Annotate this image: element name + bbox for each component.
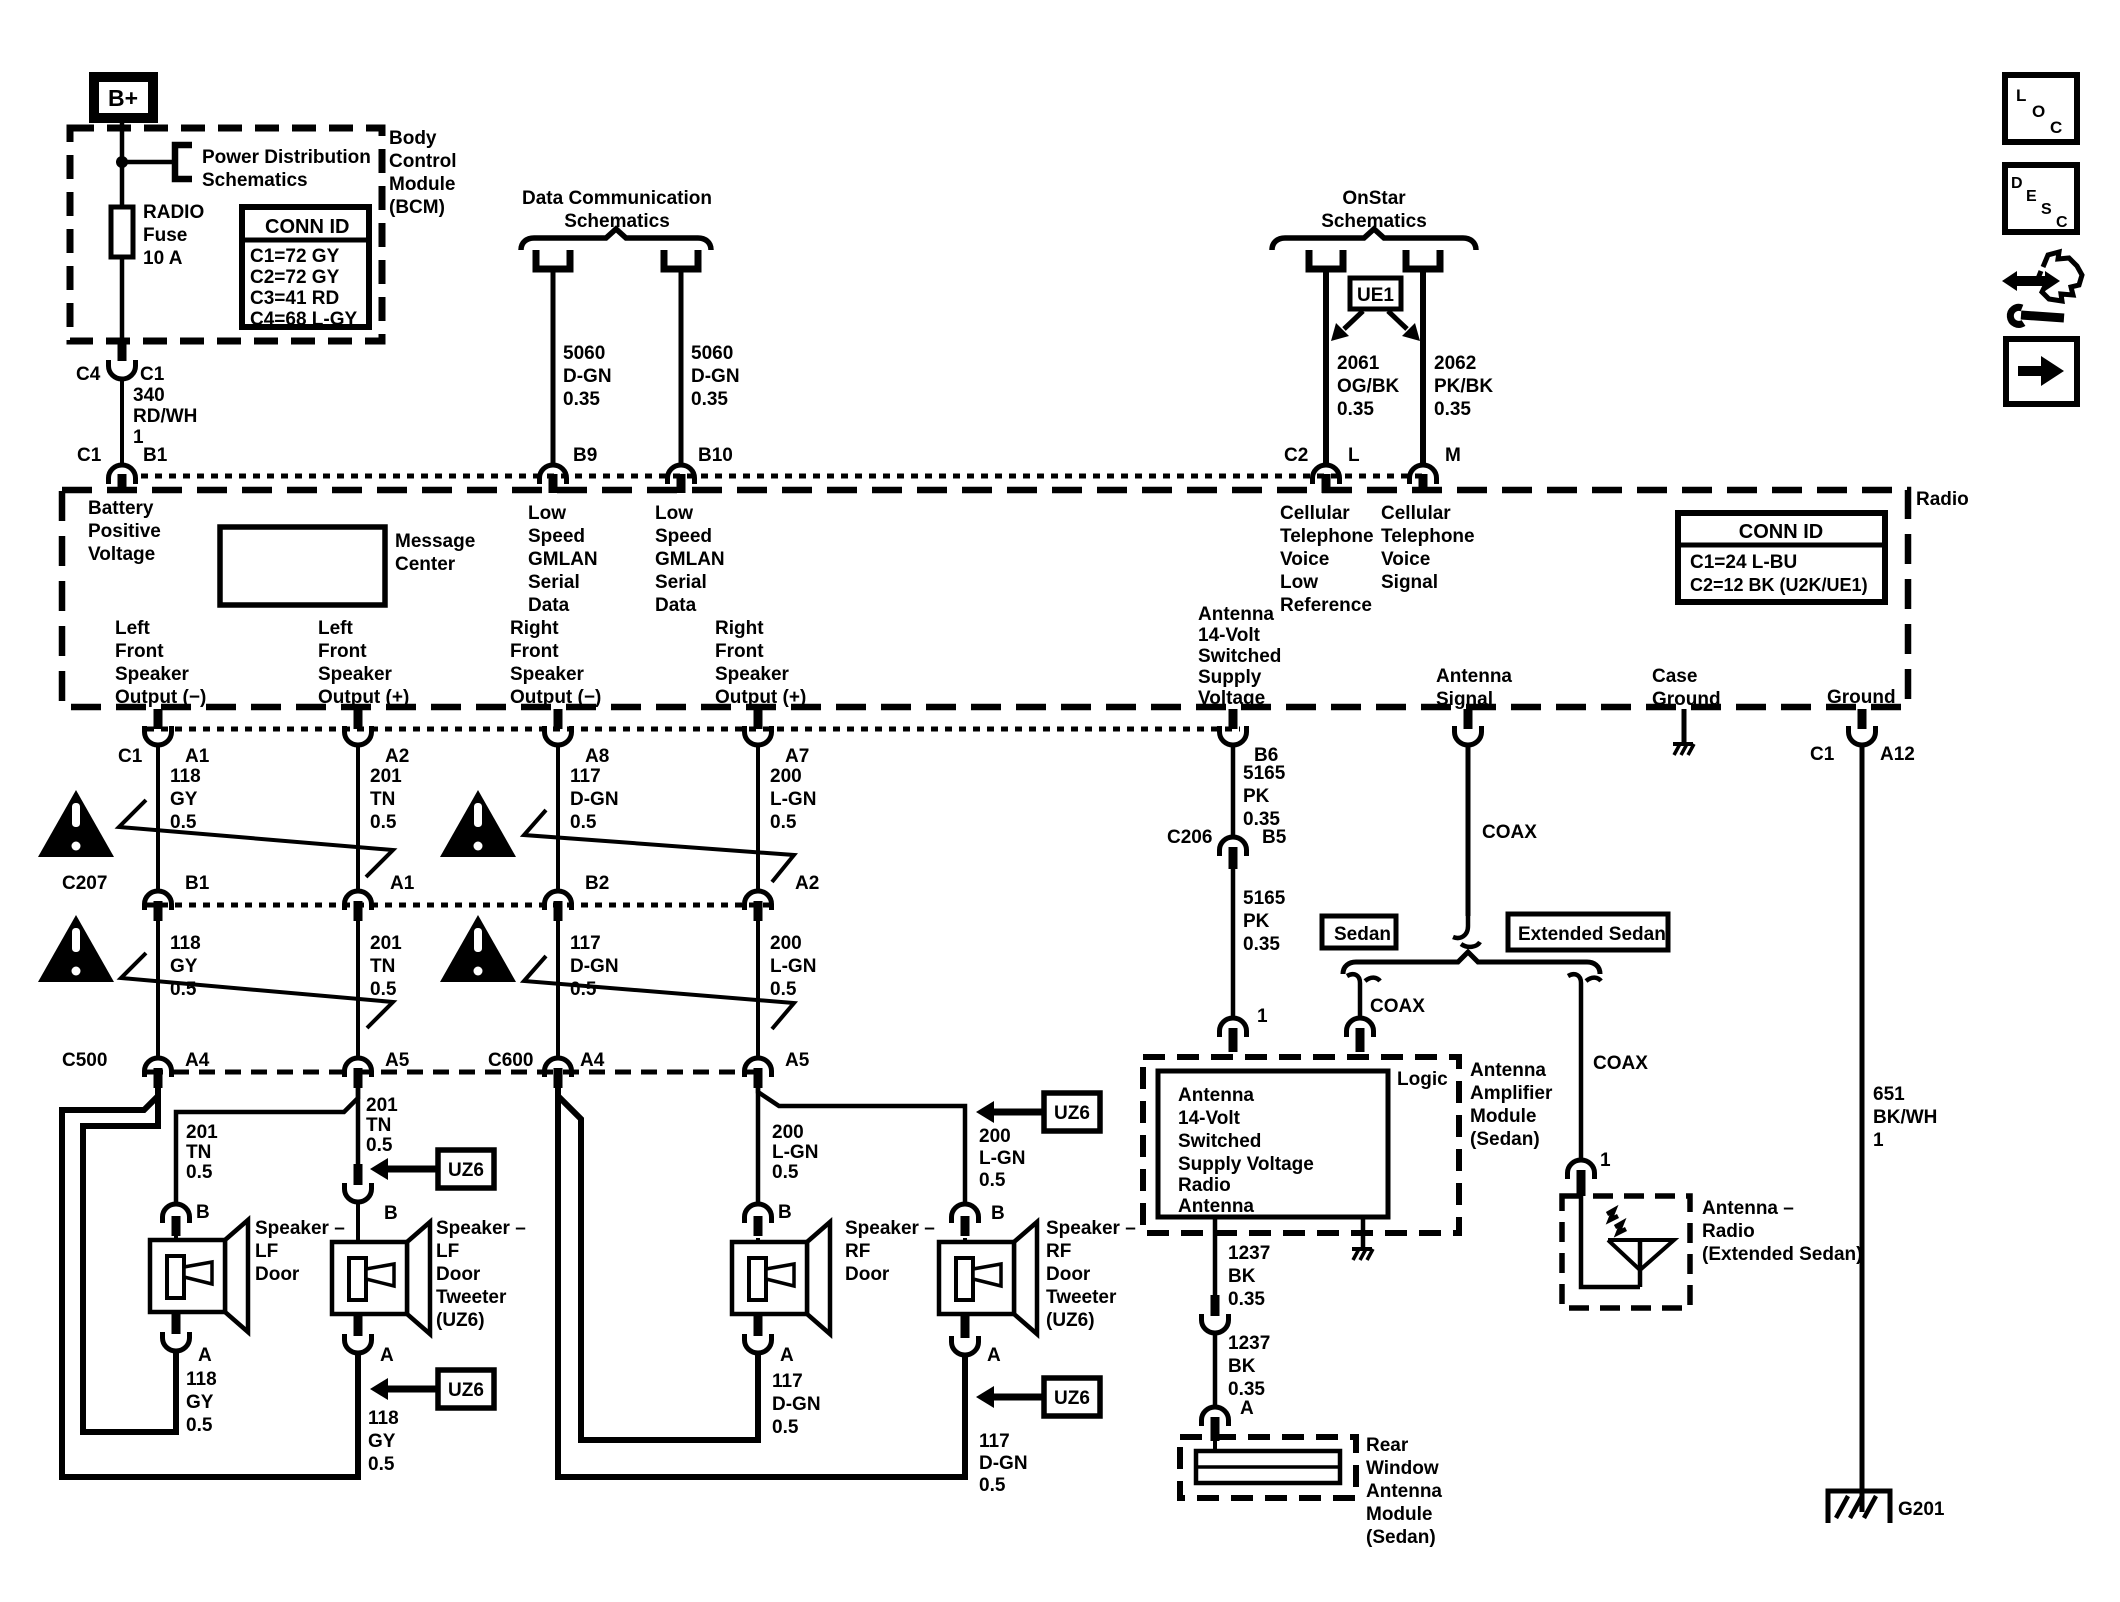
- svg-text:S: S: [2041, 201, 2052, 218]
- wire label 117 D-GN 0.5 (woofer A): [772, 1371, 821, 1438]
- antenna amplifier module dashed box: [1143, 1057, 1459, 1233]
- svg-text:L-GN: L-GN: [772, 1142, 818, 1163]
- wire LF(-) branch to tweeter A outer loop: [62, 1088, 358, 1477]
- connector ext antenna blade: [1577, 1170, 1586, 1196]
- wire label 117 D-GN 0.5 (tweeter A): [979, 1431, 1028, 1496]
- svg-text:Supply: Supply: [1198, 667, 1262, 688]
- connector C500 A4 blade: [154, 1068, 163, 1088]
- right front speaker output (+) label: [715, 618, 806, 708]
- svg-text:C2=72 GY: C2=72 GY: [250, 267, 340, 288]
- Extended Sedan tag box: [1508, 914, 1668, 950]
- svg-text:A: A: [198, 1345, 212, 1366]
- rear window antenna element: [1196, 1451, 1340, 1483]
- connector rear window A blade: [1211, 1417, 1220, 1441]
- svg-text:Tweeter: Tweeter: [1046, 1287, 1117, 1308]
- power distribution schematics label: [202, 147, 371, 191]
- svg-text:Amplifier: Amplifier: [1470, 1083, 1553, 1104]
- svg-text:5165: 5165: [1243, 888, 1286, 909]
- svg-text:Output (−): Output (−): [115, 687, 206, 708]
- connector B1 socket dome: [109, 465, 136, 484]
- connector C207 B1 blade: [154, 901, 163, 921]
- ground G201 symbol: [1828, 1491, 1890, 1523]
- svg-text:200: 200: [772, 1122, 804, 1143]
- svg-text:A: A: [780, 1345, 794, 1366]
- connector amp pin 1 dome: [1220, 1018, 1247, 1037]
- wire label 5165 PK 0.35: [1243, 888, 1286, 955]
- svg-text:Supply Voltage: Supply Voltage: [1178, 1154, 1314, 1175]
- wire label 117 D-GN 0.5: [570, 766, 619, 833]
- wire label 1237 BK 0.35: [1228, 1243, 1270, 1310]
- connector B1 blade into radio: [118, 474, 127, 493]
- svg-text:L: L: [2016, 86, 2026, 105]
- wire label 5165 PK 0.35: [1243, 763, 1286, 830]
- speaker LF door tweeter label: [436, 1218, 526, 1331]
- svg-text:Telephone: Telephone: [1381, 526, 1475, 547]
- antenna amplifier module label: [1470, 1060, 1553, 1150]
- connector C500 A5 dome: [345, 1058, 372, 1077]
- UZ6 arrow (RF tweeter B): [976, 1093, 1100, 1131]
- wire label 340 RD/WH 1: [133, 385, 197, 448]
- connector C206 dome: [1220, 837, 1247, 856]
- svg-text:Data Communication: Data Communication: [522, 188, 712, 209]
- wire coax sedan drop: [1358, 983, 1363, 1016]
- svg-text:UE1: UE1: [1357, 285, 1394, 306]
- svg-text:200: 200: [979, 1126, 1011, 1147]
- wire label 5060 D-GN 0.35: [563, 343, 612, 410]
- svg-text:Rear: Rear: [1366, 1435, 1409, 1456]
- pin ground socket: [1849, 726, 1876, 745]
- connector C206 blade: [1229, 847, 1238, 869]
- svg-text:201: 201: [366, 1095, 398, 1116]
- amplifier inner label: [1178, 1085, 1314, 1217]
- svg-text:COAX: COAX: [1370, 996, 1425, 1017]
- pin A8 blade: [554, 709, 563, 729]
- svg-text:(Sedan): (Sedan): [1470, 1129, 1540, 1150]
- svg-text:L-GN: L-GN: [770, 956, 816, 977]
- wire RF(-) branch to tweeter A loop: [558, 1096, 965, 1477]
- svg-text:O: O: [2032, 102, 2045, 121]
- svg-text:L-GN: L-GN: [979, 1148, 1025, 1169]
- svg-text:1: 1: [1600, 1150, 1611, 1171]
- svg-text:1: 1: [1873, 1130, 1884, 1151]
- left front speaker output (+) label: [318, 618, 409, 708]
- wire 2061 OG/BK 0.35: [1323, 269, 1329, 463]
- wire coax extended sedan drop: [1579, 983, 1584, 1158]
- pin A7 socket: [745, 726, 772, 745]
- twisted pair mark 2: [524, 810, 794, 882]
- svg-text:Antenna: Antenna: [1198, 604, 1274, 625]
- svg-text:B1: B1: [185, 873, 210, 894]
- off-page connector M top: [1406, 250, 1440, 269]
- svg-text:117: 117: [979, 1431, 1010, 1452]
- svg-text:D-GN: D-GN: [979, 1453, 1028, 1474]
- connector C207 A1 dome: [345, 891, 372, 910]
- svg-text:Output (+): Output (+): [715, 687, 806, 708]
- sedan split brace: [1343, 952, 1600, 974]
- connector LF woofer B blade: [172, 1216, 181, 1236]
- svg-text:Antenna –: Antenna –: [1702, 1198, 1794, 1219]
- svg-text:0.35: 0.35: [1337, 399, 1374, 420]
- svg-text:Power Distribution: Power Distribution: [202, 147, 371, 168]
- body control module (BCM) dashed box: [70, 128, 382, 341]
- svg-text:0.5: 0.5: [772, 1417, 799, 1438]
- rear window antenna module dashed box: [1180, 1437, 1356, 1498]
- radio CONN ID table: [1678, 513, 1885, 602]
- svg-text:0.5: 0.5: [770, 979, 797, 1000]
- svg-text:Cellular: Cellular: [1280, 503, 1350, 524]
- svg-text:Data: Data: [528, 595, 570, 616]
- svg-text:Serial: Serial: [655, 572, 707, 593]
- svg-text:5060: 5060: [563, 343, 605, 364]
- connector C600 A4 blade: [554, 1068, 563, 1088]
- svg-text:Voltage: Voltage: [88, 544, 155, 565]
- svg-text:D-GN: D-GN: [691, 366, 740, 387]
- svg-text:D-GN: D-GN: [570, 789, 619, 810]
- connector amp pin 1 blade: [1229, 1028, 1238, 1052]
- svg-text:CONN ID: CONN ID: [265, 216, 349, 238]
- svg-text:Speaker: Speaker: [318, 664, 393, 685]
- svg-text:B1: B1: [143, 445, 168, 466]
- off-page connector B10 top: [664, 250, 698, 269]
- warning triangle 3: [38, 915, 114, 982]
- svg-text:Window: Window: [1366, 1458, 1439, 1479]
- cellular telephone voice low reference label: [1280, 503, 1374, 616]
- inline connector 1237 blade: [1211, 1295, 1220, 1316]
- wire 200 L-GN segment 2: [756, 921, 760, 1056]
- svg-text:118: 118: [170, 766, 201, 787]
- svg-text:B+: B+: [108, 85, 138, 111]
- svg-text:GMLAN: GMLAN: [655, 549, 725, 570]
- svg-text:Left: Left: [115, 618, 151, 639]
- power distribution schematics bracket: [175, 145, 192, 179]
- svg-text:Voice: Voice: [1381, 549, 1430, 570]
- icon LOC box: [2005, 75, 2077, 142]
- wire 340 RD/WH 1: [120, 380, 124, 463]
- svg-text:Speaker: Speaker: [715, 664, 790, 685]
- wire label 118 GY 0.5: [170, 933, 201, 1000]
- svg-text:14-Volt: 14-Volt: [1198, 625, 1261, 646]
- UZ6 arrow (LF tweeter A): [370, 1370, 494, 1408]
- wire label 201 TN 0.5 (tweeter B): [366, 1095, 398, 1156]
- svg-text:Speaker –: Speaker –: [845, 1218, 935, 1239]
- icon vehicle outline: [2037, 252, 2082, 301]
- svg-text:Radio: Radio: [1178, 1175, 1231, 1196]
- wire label 201 TN 0.5 (woofer B): [186, 1122, 218, 1183]
- svg-text:0.35: 0.35: [1228, 1289, 1265, 1310]
- svg-text:COAX: COAX: [1593, 1053, 1648, 1074]
- svg-text:0.35: 0.35: [1228, 1379, 1265, 1400]
- wire 1237 BK segment 1: [1213, 1217, 1218, 1295]
- svg-text:Radio: Radio: [1916, 489, 1969, 510]
- wire through LF tweeter: [356, 1262, 360, 1318]
- speaker RF door tweeter: [939, 1222, 1037, 1334]
- connector M socket dome: [1410, 465, 1437, 484]
- connector row dotted line C207: [147, 903, 770, 908]
- wire label 118 GY 0.5: [170, 766, 201, 833]
- svg-text:0.5: 0.5: [370, 812, 397, 833]
- speaker RF door label: [845, 1218, 935, 1285]
- svg-text:Control: Control: [389, 151, 457, 172]
- fuse RADIO 10A: [111, 207, 133, 257]
- svg-text:117: 117: [570, 933, 601, 954]
- wire 5060 D-GN 0.35 (right): [679, 269, 684, 463]
- pin A2 blade: [354, 709, 363, 729]
- wire B6 5165 PK segment 1: [1231, 746, 1236, 835]
- svg-text:D-GN: D-GN: [772, 1394, 821, 1415]
- svg-text:Door: Door: [1046, 1264, 1091, 1285]
- pin antenna signal socket: [1455, 726, 1482, 745]
- case ground chassis symbol: [1673, 744, 1694, 755]
- warning triangle 1: [38, 790, 114, 857]
- svg-text:Right: Right: [715, 618, 764, 639]
- wire 2062 PK/BK 0.35: [1420, 269, 1426, 463]
- svg-text:Door: Door: [845, 1264, 890, 1285]
- svg-text:Right: Right: [510, 618, 559, 639]
- svg-text:Schematics: Schematics: [202, 170, 308, 191]
- svg-text:GMLAN: GMLAN: [528, 549, 598, 570]
- antenna mast symbol: [1608, 1240, 1674, 1287]
- svg-text:Speaker: Speaker: [510, 664, 585, 685]
- connector RF tweeter B blade: [961, 1216, 970, 1236]
- wire fuse to BCM edge: [120, 257, 125, 343]
- svg-text:D: D: [2011, 175, 2023, 192]
- wire A8 117 D-GN segment 1: [556, 746, 560, 889]
- off-page connector L top: [1309, 250, 1343, 269]
- connector row dotted line (radio bottom): [147, 727, 1240, 732]
- svg-text:Door: Door: [255, 1264, 300, 1285]
- svg-text:C4: C4: [76, 364, 101, 385]
- connector RF tweeter B dome: [952, 1204, 979, 1223]
- svg-text:C207: C207: [62, 873, 107, 894]
- twisted pair mark 1: [119, 800, 393, 877]
- svg-text:(BCM): (BCM): [389, 197, 445, 218]
- svg-text:COAX: COAX: [1482, 822, 1537, 843]
- connector C600 A5 dome: [745, 1058, 772, 1077]
- svg-text:C1=24 L-BU: C1=24 L-BU: [1690, 552, 1797, 573]
- svg-text:GY: GY: [368, 1431, 396, 1452]
- wire A1 118 GY segment 1: [156, 746, 160, 889]
- svg-text:Ground: Ground: [1652, 689, 1721, 710]
- antenna radio (extended sedan) dashed box: [1562, 1196, 1690, 1308]
- svg-text:Body: Body: [389, 128, 437, 149]
- svg-text:Center: Center: [395, 554, 456, 575]
- svg-text:Fuse: Fuse: [143, 225, 187, 246]
- wire B+ to fuse: [120, 116, 125, 207]
- svg-text:5165: 5165: [1243, 763, 1286, 784]
- svg-text:Battery: Battery: [88, 498, 154, 519]
- svg-text:A12: A12: [1880, 744, 1915, 765]
- connector C207 B2 blade: [554, 901, 563, 921]
- svg-text:0.5: 0.5: [186, 1415, 213, 1436]
- inline connector 1237 socket: [1202, 1314, 1229, 1333]
- connector L socket dome: [1313, 465, 1340, 484]
- svg-text:Logic: Logic: [1397, 1069, 1448, 1090]
- svg-text:Speaker –: Speaker –: [436, 1218, 526, 1239]
- svg-text:A: A: [1240, 1398, 1254, 1419]
- svg-text:A8: A8: [585, 746, 609, 767]
- wire junction to power distribution bracket: [122, 160, 173, 165]
- svg-text:B5: B5: [1262, 827, 1287, 848]
- svg-text:L: L: [1348, 445, 1360, 466]
- svg-text:117: 117: [772, 1371, 803, 1392]
- svg-text:0.5: 0.5: [570, 979, 597, 1000]
- svg-text:0.5: 0.5: [370, 979, 397, 1000]
- svg-text:Positive: Positive: [88, 521, 161, 542]
- amp internal ground wire: [1361, 1217, 1366, 1247]
- UZ6 arrow (RF tweeter A): [976, 1378, 1100, 1416]
- antenna wave marks: [1607, 1210, 1626, 1233]
- antenna 14-volt switched supply voltage label: [1198, 604, 1281, 709]
- svg-text:RF: RF: [845, 1241, 870, 1262]
- wire label 651 BK/WH 1: [1873, 1084, 1937, 1151]
- off-page connector B9 top: [536, 250, 570, 269]
- svg-text:Antenna: Antenna: [1366, 1481, 1442, 1502]
- svg-text:201: 201: [370, 766, 402, 787]
- warning triangle 2: [440, 790, 516, 857]
- wire label 200 L-GN 0.5: [770, 766, 816, 833]
- svg-text:LF: LF: [436, 1241, 459, 1262]
- svg-text:14-Volt: 14-Volt: [1178, 1108, 1241, 1129]
- battery feed B+ terminal box: [94, 77, 153, 118]
- svg-text:201: 201: [186, 1122, 218, 1143]
- svg-text:B: B: [384, 1203, 398, 1224]
- svg-text:Output (+): Output (+): [318, 687, 409, 708]
- svg-text:RADIO: RADIO: [143, 202, 204, 223]
- svg-text:1237: 1237: [1228, 1243, 1270, 1264]
- connector B9 blade: [549, 474, 558, 493]
- svg-text:0.5: 0.5: [368, 1454, 395, 1475]
- svg-text:TN: TN: [370, 789, 395, 810]
- wire through RF tweeter: [963, 1238, 967, 1316]
- battery positive voltage label: [88, 498, 161, 565]
- radio dashed box: [62, 490, 1908, 707]
- connector row dashed line C500/C600: [147, 1070, 770, 1075]
- svg-text:0.35: 0.35: [1243, 934, 1280, 955]
- svg-text:Antenna: Antenna: [1436, 666, 1512, 687]
- wire LF(+) branch to woofer B: [176, 1088, 358, 1202]
- svg-text:LF: LF: [255, 1241, 278, 1262]
- icon vehicle double arrow: [2002, 271, 2060, 291]
- svg-text:Speed: Speed: [528, 526, 585, 547]
- svg-text:2062: 2062: [1434, 353, 1476, 374]
- svg-text:C1: C1: [118, 746, 143, 767]
- svg-text:C: C: [2050, 118, 2062, 137]
- svg-text:Extended Sedan: Extended Sedan: [1518, 924, 1666, 945]
- svg-text:C4=68 L-GY: C4=68 L-GY: [250, 309, 358, 330]
- pin A8 socket: [545, 726, 572, 745]
- svg-text:Low: Low: [528, 503, 566, 524]
- svg-text:Voltage: Voltage: [1198, 688, 1265, 709]
- pin antenna signal blade: [1464, 709, 1473, 729]
- twisted pair mark 4: [524, 956, 794, 1029]
- wire inside antenna box: [1581, 1196, 1640, 1287]
- svg-text:Module: Module: [1366, 1504, 1433, 1525]
- svg-text:M: M: [1445, 445, 1461, 466]
- svg-text:0.5: 0.5: [979, 1170, 1006, 1191]
- svg-text:Front: Front: [318, 641, 367, 662]
- svg-text:Low: Low: [1280, 572, 1318, 593]
- svg-text:Tweeter: Tweeter: [436, 1287, 507, 1308]
- svg-text:118: 118: [368, 1408, 399, 1429]
- wire RF(+) branch to tweeter B: [758, 1088, 965, 1202]
- case ground stub: [1682, 709, 1687, 742]
- svg-text:GY: GY: [170, 789, 198, 810]
- svg-text:C1: C1: [77, 445, 102, 466]
- svg-text:GY: GY: [170, 956, 198, 977]
- connector ext antenna dome: [1568, 1160, 1595, 1179]
- low speed GMLAN serial data label (left): [528, 503, 598, 616]
- pin ground blade: [1858, 709, 1867, 729]
- svg-text:Cellular: Cellular: [1381, 503, 1451, 524]
- wire into rear window module: [1213, 1441, 1217, 1453]
- svg-text:Signal: Signal: [1436, 689, 1493, 710]
- connector C207 B2 dome: [545, 891, 572, 910]
- svg-text:Speaker –: Speaker –: [255, 1218, 345, 1239]
- wire label 200 L-GN 0.5 (tweeter B): [979, 1126, 1025, 1191]
- svg-text:118: 118: [186, 1369, 217, 1390]
- svg-text:RD/WH: RD/WH: [133, 406, 197, 427]
- svg-text:TN: TN: [366, 1115, 391, 1136]
- svg-text:PK: PK: [1243, 911, 1270, 932]
- svg-text:Serial: Serial: [528, 572, 580, 593]
- connector C4/C1 blade: [118, 341, 127, 361]
- svg-text:(UZ6): (UZ6): [436, 1310, 485, 1331]
- svg-text:E: E: [2026, 188, 2037, 205]
- connector LF tweeter A socket: [345, 1334, 372, 1353]
- OnStar brace: [1272, 229, 1476, 250]
- pin B6 socket: [1220, 726, 1247, 745]
- connector RF woofer B dome: [745, 1204, 772, 1223]
- wire RF(+) branch to woofer B: [756, 1088, 761, 1202]
- wire label 200 L-GN 0.5 (woofer B): [772, 1122, 818, 1183]
- svg-text:0.5: 0.5: [366, 1135, 393, 1156]
- connector L blade: [1322, 474, 1331, 493]
- low speed GMLAN serial data label (right): [655, 503, 725, 616]
- svg-text:0.5: 0.5: [570, 812, 597, 833]
- svg-text:A4: A4: [185, 1050, 210, 1071]
- connector LF tweeter A blade: [354, 1314, 363, 1336]
- inline connector LF tweeter socket: [345, 1183, 372, 1202]
- wire label 201 TN 0.5: [370, 766, 402, 833]
- svg-text:1: 1: [1257, 1006, 1268, 1027]
- warning triangle 4: [440, 915, 516, 982]
- cellular telephone voice signal label: [1381, 503, 1475, 593]
- message center box: [220, 527, 385, 605]
- wire 5060 D-GN 0.35 (left): [551, 269, 556, 463]
- svg-text:Speed: Speed: [655, 526, 712, 547]
- svg-text:C3=41 RD: C3=41 RD: [250, 288, 339, 309]
- svg-text:B: B: [778, 1202, 792, 1223]
- Sedan tag box: [1322, 916, 1396, 948]
- wire into LF tweeter: [356, 1203, 360, 1262]
- svg-text:CONN ID: CONN ID: [1739, 521, 1823, 543]
- svg-text:0.5: 0.5: [186, 1162, 213, 1183]
- svg-text:117: 117: [570, 766, 601, 787]
- svg-text:0.35: 0.35: [691, 389, 728, 410]
- speaker RF door tweeter label: [1046, 1218, 1136, 1331]
- icon DESC box: [2005, 165, 2077, 232]
- svg-text:BK: BK: [1228, 1266, 1256, 1287]
- pin A1 socket: [145, 726, 172, 745]
- svg-text:B2: B2: [585, 873, 609, 894]
- wire 201 TN segment 2: [356, 921, 360, 1056]
- amp chassis ground symbol: [1352, 1249, 1373, 1260]
- coax separation hook (antenna signal): [1453, 916, 1480, 947]
- connector LF woofer A socket: [163, 1332, 190, 1351]
- coax hook (sedan drop): [1347, 974, 1380, 983]
- svg-text:L-GN: L-GN: [770, 789, 816, 810]
- connector C207 A2 dome: [745, 891, 772, 910]
